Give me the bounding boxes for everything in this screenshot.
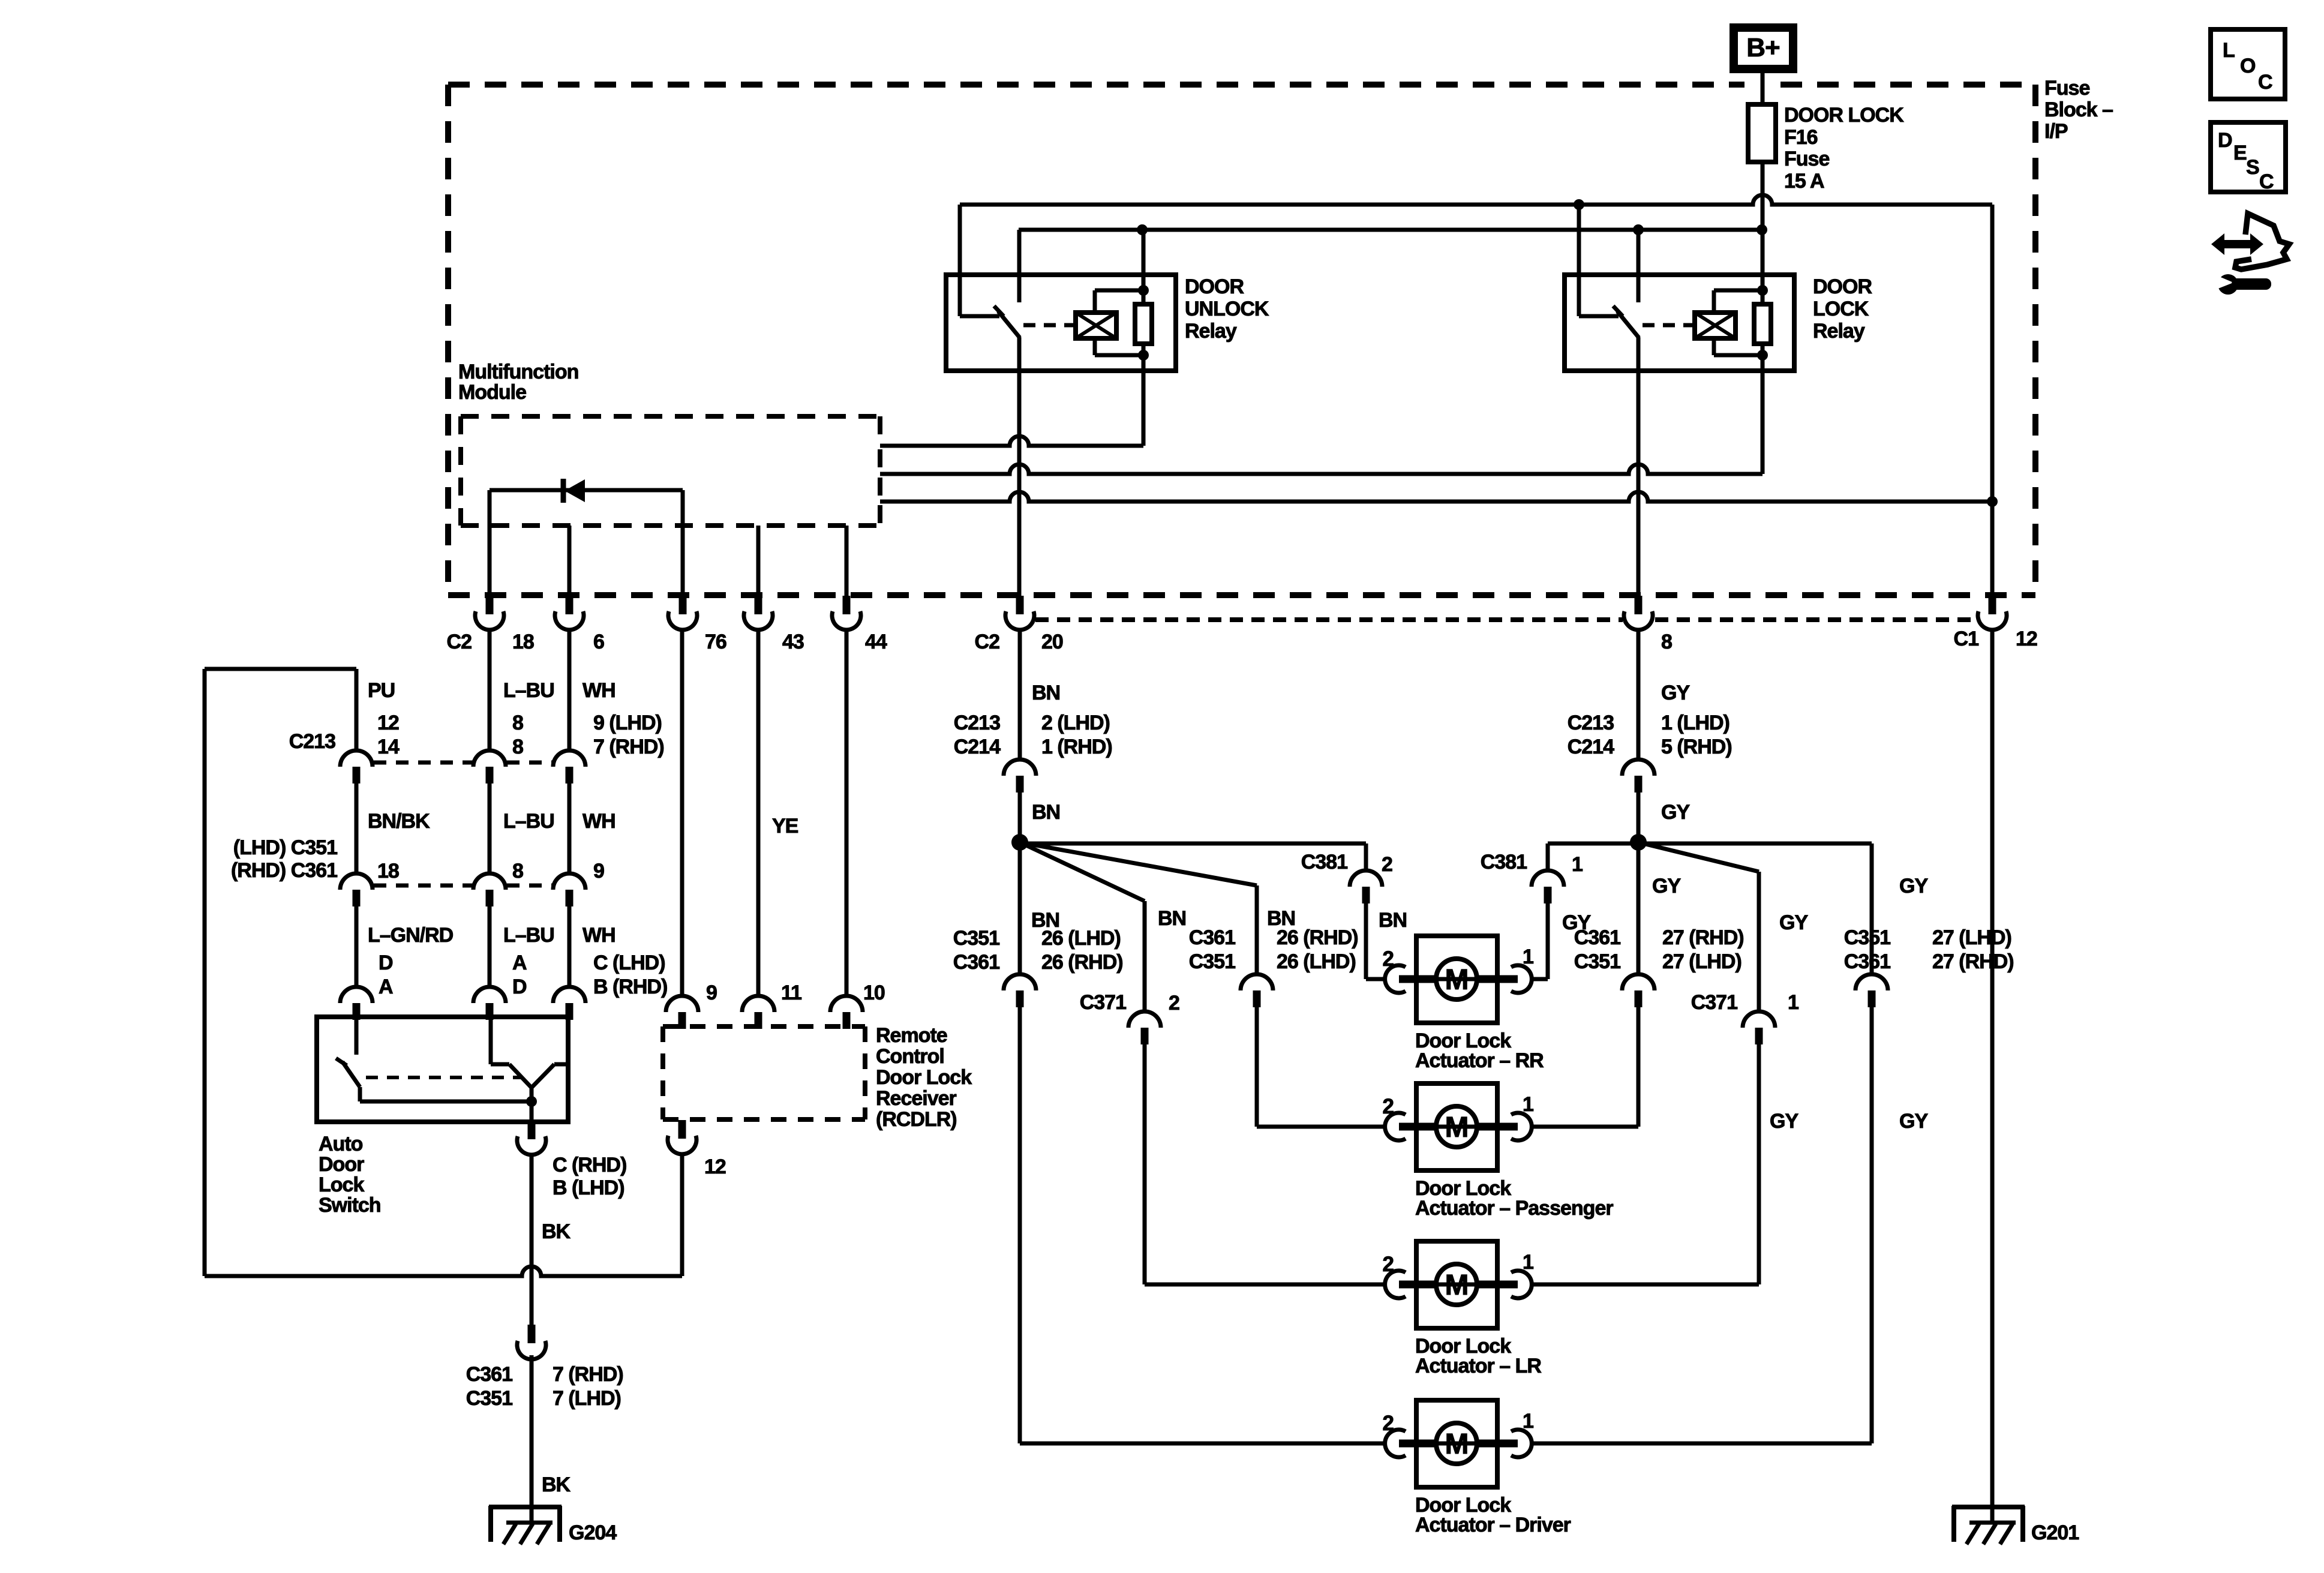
svg-text:2 (LHD): 2 (LHD) (1041, 712, 1110, 734)
svg-text:Control: Control (876, 1045, 944, 1068)
svg-text:26 (RHD): 26 (RHD) (1277, 926, 1358, 949)
svg-text:2: 2 (1382, 853, 1392, 876)
svg-text:2: 2 (1383, 947, 1394, 971)
svg-text:UNLOCK: UNLOCK (1185, 298, 1269, 320)
svg-text:C (LHD): C (LHD) (593, 951, 665, 974)
svg-text:2: 2 (1169, 992, 1179, 1014)
svg-text:DOOR: DOOR (1813, 275, 1872, 298)
svg-text:L–GN/RD: L–GN/RD (368, 924, 454, 947)
svg-text:6: 6 (593, 631, 604, 653)
svg-text:43: 43 (782, 631, 804, 653)
svg-text:20: 20 (1041, 631, 1063, 653)
svg-text:27 (LHD): 27 (LHD) (1662, 950, 1742, 973)
svg-text:C214: C214 (1568, 736, 1614, 758)
svg-text:GY: GY (1661, 801, 1690, 824)
svg-text:12: 12 (377, 712, 399, 734)
svg-text:Actuator – RR: Actuator – RR (1415, 1049, 1544, 1072)
svg-text:C1: C1 (1954, 628, 1979, 650)
svg-text:I/P: I/P (2044, 120, 2068, 143)
svg-text:C213: C213 (954, 712, 1000, 734)
svg-text:C213: C213 (1568, 712, 1614, 734)
svg-text:1: 1 (1523, 945, 1533, 968)
svg-text:LOCK: LOCK (1813, 298, 1869, 320)
svg-text:G204: G204 (569, 1521, 617, 1544)
svg-text:Remote: Remote (876, 1024, 947, 1047)
svg-text:Fuse: Fuse (1784, 148, 1829, 170)
svg-text:Switch: Switch (319, 1194, 381, 1217)
svg-text:BN: BN (1158, 907, 1186, 930)
svg-text:8: 8 (512, 712, 523, 734)
svg-text:1 (LHD): 1 (LHD) (1661, 712, 1730, 734)
svg-text:GY: GY (1899, 875, 1928, 897)
svg-text:1: 1 (1523, 1251, 1533, 1274)
svg-text:C2: C2 (975, 631, 1000, 653)
svg-text:BN: BN (1032, 682, 1060, 704)
svg-text:A: A (512, 951, 527, 974)
svg-text:C351: C351 (466, 1387, 512, 1410)
svg-text:Actuator – Driver: Actuator – Driver (1415, 1514, 1571, 1536)
svg-text:15 A: 15 A (1784, 170, 1824, 193)
svg-text:E: E (2233, 142, 2247, 164)
svg-text:WH: WH (582, 924, 615, 947)
svg-text:B+: B+ (1746, 33, 1779, 62)
svg-text:GY: GY (1652, 875, 1681, 897)
svg-text:26 (LHD): 26 (LHD) (1277, 950, 1356, 973)
svg-text:C361: C361 (466, 1363, 512, 1386)
svg-text:1: 1 (1572, 853, 1583, 876)
svg-text:Block –: Block – (2044, 98, 2113, 121)
svg-text:C: C (2259, 170, 2274, 193)
svg-text:Door: Door (319, 1153, 364, 1176)
svg-text:GY: GY (1779, 911, 1808, 934)
svg-text:8: 8 (512, 860, 523, 882)
svg-text:12: 12 (704, 1155, 726, 1178)
svg-text:18: 18 (377, 860, 399, 882)
svg-text:PU: PU (368, 679, 395, 702)
svg-text:(RHD) C361: (RHD) C361 (231, 859, 337, 882)
svg-text:GY: GY (1770, 1110, 1798, 1133)
svg-text:27 (LHD): 27 (LHD) (1932, 926, 2011, 949)
svg-text:GY: GY (1899, 1110, 1928, 1133)
svg-text:2: 2 (1383, 1095, 1394, 1118)
svg-text:BN: BN (1032, 801, 1060, 824)
svg-text:WH: WH (582, 679, 615, 702)
svg-text:C361: C361 (953, 951, 999, 974)
svg-text:C351: C351 (953, 927, 999, 950)
svg-text:9: 9 (593, 860, 604, 882)
svg-text:44: 44 (865, 631, 887, 653)
svg-text:Multifunction: Multifunction (458, 361, 578, 383)
svg-text:O: O (2240, 55, 2256, 77)
svg-text:8: 8 (512, 736, 523, 758)
svg-text:Fuse: Fuse (2044, 77, 2089, 100)
svg-text:BK: BK (542, 1473, 571, 1496)
svg-text:F16: F16 (1784, 126, 1818, 149)
svg-text:Lock: Lock (319, 1173, 364, 1196)
svg-text:S: S (2246, 156, 2259, 179)
svg-text:GY: GY (1661, 682, 1690, 704)
svg-text:2: 2 (1383, 1412, 1394, 1435)
svg-text:DOOR: DOOR (1185, 275, 1244, 298)
svg-text:C361: C361 (1189, 926, 1235, 949)
svg-text:9 (LHD): 9 (LHD) (593, 712, 662, 734)
svg-text:L–BU: L–BU (503, 679, 554, 702)
svg-text:Actuator – Passenger: Actuator – Passenger (1415, 1197, 1613, 1220)
svg-text:A: A (379, 975, 393, 998)
svg-text:BN: BN (1379, 909, 1407, 932)
svg-text:Relay: Relay (1813, 320, 1865, 343)
svg-text:C2: C2 (447, 631, 472, 653)
svg-text:7 (LHD): 7 (LHD) (553, 1387, 621, 1410)
svg-text:C213: C213 (289, 730, 335, 753)
svg-text:1 (RHD): 1 (RHD) (1041, 736, 1112, 758)
svg-text:7 (RHD): 7 (RHD) (593, 736, 664, 758)
svg-text:B (RHD): B (RHD) (593, 975, 667, 998)
svg-text:C: C (2258, 71, 2272, 94)
svg-text:Door Lock: Door Lock (876, 1066, 972, 1089)
svg-text:9: 9 (706, 981, 717, 1004)
svg-text:27 (RHD): 27 (RHD) (1662, 926, 1744, 949)
svg-text:1: 1 (1523, 1093, 1533, 1116)
svg-text:1: 1 (1523, 1410, 1533, 1433)
svg-text:(RCDLR): (RCDLR) (876, 1108, 957, 1131)
svg-text:76: 76 (705, 631, 726, 653)
svg-text:Auto: Auto (319, 1133, 363, 1155)
svg-text:8: 8 (1661, 631, 1672, 653)
svg-text:B (LHD): B (LHD) (553, 1176, 624, 1199)
svg-text:2: 2 (1383, 1253, 1394, 1276)
svg-text:D: D (512, 975, 527, 998)
svg-text:14: 14 (377, 736, 400, 758)
svg-text:26 (LHD): 26 (LHD) (1041, 927, 1121, 950)
svg-text:10: 10 (863, 981, 885, 1004)
svg-text:C214: C214 (954, 736, 1001, 758)
svg-text:C361: C361 (1574, 926, 1620, 949)
svg-text:C361: C361 (1844, 950, 1890, 973)
svg-text:Receiver: Receiver (876, 1087, 957, 1110)
svg-text:18: 18 (512, 631, 534, 653)
svg-text:WH: WH (582, 810, 615, 833)
svg-text:C351: C351 (1574, 950, 1620, 973)
svg-text:G201: G201 (2031, 1521, 2079, 1544)
svg-text:1: 1 (1788, 991, 1798, 1014)
svg-text:L–BU: L–BU (503, 810, 554, 833)
svg-text:L–BU: L–BU (503, 924, 554, 947)
svg-text:Module: Module (458, 381, 526, 404)
svg-text:7 (RHD): 7 (RHD) (553, 1363, 623, 1386)
svg-text:D: D (2218, 129, 2232, 152)
svg-text:12: 12 (2016, 628, 2037, 650)
svg-text:C381: C381 (1301, 851, 1347, 873)
svg-text:27 (RHD): 27 (RHD) (1932, 950, 2014, 973)
svg-text:L: L (2223, 39, 2235, 62)
svg-text:(LHD) C351: (LHD) C351 (233, 836, 337, 859)
svg-text:C (RHD): C (RHD) (553, 1154, 626, 1176)
svg-text:C371: C371 (1691, 991, 1737, 1014)
svg-text:YE: YE (772, 815, 798, 837)
svg-text:C371: C371 (1080, 991, 1126, 1014)
svg-text:C381: C381 (1481, 851, 1527, 873)
svg-text:D: D (379, 951, 393, 974)
svg-text:26 (RHD): 26 (RHD) (1041, 951, 1123, 974)
svg-text:DOOR LOCK: DOOR LOCK (1784, 104, 1904, 127)
svg-text:Actuator – LR: Actuator – LR (1415, 1355, 1541, 1377)
svg-text:11: 11 (781, 981, 801, 1004)
svg-text:C351: C351 (1844, 926, 1890, 949)
svg-text:BN/BK: BN/BK (368, 810, 430, 833)
svg-text:C351: C351 (1189, 950, 1235, 973)
svg-text:BK: BK (542, 1220, 571, 1243)
svg-text:5 (RHD): 5 (RHD) (1661, 736, 1732, 758)
svg-text:Relay: Relay (1185, 320, 1237, 343)
